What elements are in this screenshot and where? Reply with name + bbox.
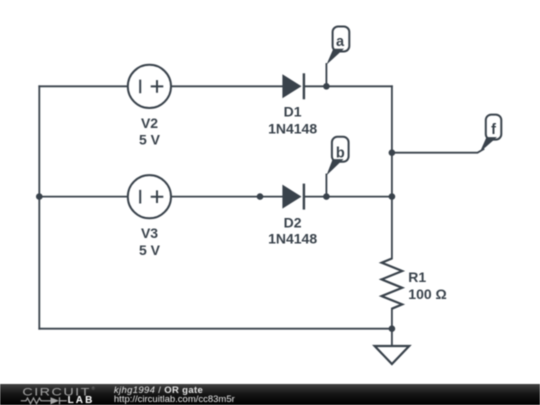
wire top row left stub (39, 85, 128, 87)
svg-text:D2: D2 (284, 214, 302, 230)
svg-text:http://circuitlab.com/cc83m5r: http://circuitlab.com/cc83m5r (114, 394, 235, 405)
svg-text:LAB: LAB (68, 395, 95, 405)
node bottom-right junction (389, 325, 396, 332)
wire middle row D2 to right vertical (304, 196, 392, 198)
node left-mid junction (36, 193, 43, 200)
wire top row V2 to D1 (171, 85, 282, 87)
node junction dots (36, 83, 395, 332)
node mid-wire junction (257, 193, 264, 200)
node b junction (323, 193, 330, 200)
svg-text:a: a (336, 34, 345, 50)
wire middle row V3 to D2 (171, 196, 282, 198)
flag a (326, 27, 349, 65)
voltage source V2 (128, 65, 171, 148)
svg-text:5 V: 5 V (139, 242, 161, 258)
svg-text:1N4148: 1N4148 (268, 231, 317, 247)
svg-text:R1: R1 (408, 269, 426, 285)
node f junction (389, 149, 396, 156)
svg-text:100 Ω: 100 Ω (408, 286, 446, 302)
wire middle row left stub (39, 196, 127, 198)
wire flag a drop (325, 64, 327, 86)
logo resistor-diode squiggle (21, 397, 67, 404)
footer bar (0, 384, 540, 405)
svg-text:f: f (491, 122, 496, 138)
flag b (326, 137, 348, 176)
wire right vertical upper (391, 86, 393, 258)
logo diode triangle (51, 397, 60, 404)
diode D2 (268, 184, 317, 247)
wire flag b drop (325, 175, 327, 197)
flag f (480, 115, 502, 153)
wire node f branch (392, 149, 484, 153)
wire top row D1 to right corner (304, 85, 392, 87)
wire bottom row (39, 328, 392, 330)
svg-text:b: b (336, 145, 345, 161)
wire right vertical lower (391, 309, 393, 346)
ground (375, 346, 410, 364)
node a junction (323, 83, 330, 90)
svg-text:5 V: 5 V (139, 132, 161, 148)
resistor R1 (382, 259, 447, 309)
svg-text:V2: V2 (141, 115, 158, 131)
svg-text:D1: D1 (284, 103, 302, 119)
wire left vertical (38, 86, 40, 328)
diode D1 (268, 73, 317, 136)
svg-text:1N4148: 1N4148 (268, 120, 317, 136)
svg-text:V3: V3 (141, 225, 158, 241)
node mid-right junction (389, 193, 396, 200)
voltage source V3 (128, 175, 171, 258)
